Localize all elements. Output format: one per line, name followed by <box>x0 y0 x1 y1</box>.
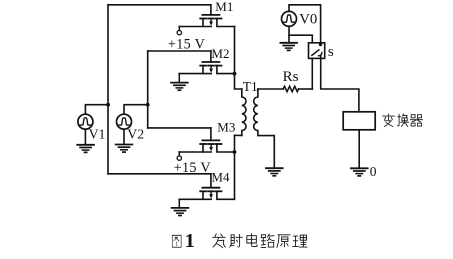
wire: vertical bus B (V2 signal) <box>147 51 149 128</box>
svg-text:+15 V: +15 V <box>174 160 212 176</box>
node: M2 drain junction <box>233 72 237 76</box>
wire: V0 return branch passing through switch box to Rs node <box>289 35 312 89</box>
node: M3 drain junction <box>233 150 237 154</box>
wire: switch output down and over to transducer <box>321 55 359 112</box>
pulse source V1 <box>78 114 93 129</box>
transistor M1 <box>179 15 234 27</box>
wire: top gate-drive wire from bus A to M1 gate <box>108 4 211 6</box>
transistor M4 <box>179 188 234 200</box>
svg-text:V1: V1 <box>89 127 106 142</box>
ground under M4 <box>172 208 189 216</box>
switch s box outline <box>309 43 325 59</box>
wire: V2 bottom lead to ground <box>123 129 125 144</box>
ground under M2 <box>171 83 188 91</box>
resistor Rs <box>283 86 298 91</box>
wire: secondary top lead to Rs <box>258 88 283 90</box>
terminal: +15V open circle for M3 <box>177 156 181 160</box>
svg-text:M4: M4 <box>211 169 230 184</box>
wire: M2 source drop to ground <box>178 74 180 82</box>
svg-text:V0: V0 <box>299 12 317 28</box>
wire: V1 top lead to bus A <box>85 105 108 115</box>
switch s blade <box>312 50 319 55</box>
svg-text:M3: M3 <box>217 119 235 134</box>
wire: M1 gate stem <box>210 5 212 15</box>
char 换 <box>397 114 408 127</box>
wire: Rs to switch-side node <box>299 88 313 90</box>
wire: bridge midpoint vertical M3/M4 to transformer primary bottom <box>234 135 236 199</box>
char 射 <box>230 234 243 247</box>
svg-text:+15 V: +15 V <box>168 36 206 52</box>
wire: M4 gate feed from bus A <box>108 173 211 175</box>
terminal: +15V open circle for M1 <box>177 30 181 34</box>
caption 图1 发射电路原理 <box>172 230 307 252</box>
char 原 <box>277 235 290 248</box>
wire: M1 source strap down to +15V terminal <box>178 27 180 31</box>
wire: M3 gate stem <box>210 128 212 140</box>
ground node 0 <box>351 168 368 176</box>
transistor M3 <box>179 140 234 152</box>
svg-text:V2: V2 <box>127 127 144 142</box>
char 理 <box>293 235 308 247</box>
ground under transformer secondary <box>266 168 283 176</box>
transducer box <box>343 112 375 130</box>
node: junction of V2 with bus B <box>146 103 150 107</box>
char 路 <box>261 234 274 247</box>
char 图 <box>172 235 181 247</box>
ground under V2 <box>116 145 133 153</box>
svg-text:M2: M2 <box>211 46 229 61</box>
node: junction of V1 with bus A <box>106 103 110 107</box>
wire: V0 bottom lead to ground <box>288 26 290 42</box>
transformer T1 secondary winding <box>254 89 275 167</box>
char 变 <box>383 114 395 127</box>
svg-text:s: s <box>328 44 334 60</box>
char 器 <box>410 115 422 126</box>
wire: M4 gate stem <box>210 174 212 188</box>
wire: V0 top lead loop over to switch <box>289 5 321 45</box>
ground under V0 <box>280 43 297 51</box>
wire: left vertical bus A (V1 signal) <box>107 5 109 174</box>
transistor M2 <box>179 62 234 74</box>
svg-text:T1: T1 <box>243 79 258 94</box>
label 变换器 (transducer) <box>383 114 423 127</box>
wire: M4 source drop to ground <box>178 199 180 207</box>
pulse source V0 <box>282 11 297 26</box>
wire: M3 gate feed from bus B <box>148 127 211 129</box>
pulse source V2 <box>117 114 132 129</box>
node: switch top contact dot <box>319 43 322 46</box>
wire: transformer primary bottom lead <box>235 134 242 136</box>
svg-text:M1: M1 <box>215 0 233 14</box>
svg-text:0: 0 <box>370 164 377 179</box>
wire: M2 gate stem <box>210 51 212 62</box>
ground under V1 <box>77 145 94 153</box>
switch s lower contact hook <box>319 53 322 56</box>
wire: transducer to ground 0 <box>358 130 360 168</box>
char 发 <box>213 234 226 248</box>
svg-text:1: 1 <box>185 230 195 252</box>
wire: V2 top lead to bus B <box>124 105 148 115</box>
char 电 <box>247 234 257 247</box>
svg-text:Rs: Rs <box>283 69 299 85</box>
transformer T1 primary winding <box>242 89 246 135</box>
wire: M3 source strap down to +15V terminal <box>178 152 180 156</box>
wire: V1 bottom lead to ground <box>84 129 86 144</box>
wire: M2 gate feed from bus B <box>148 50 211 52</box>
wire: bridge midpoint vertical M1/M2 to transformer primary top <box>235 27 242 90</box>
